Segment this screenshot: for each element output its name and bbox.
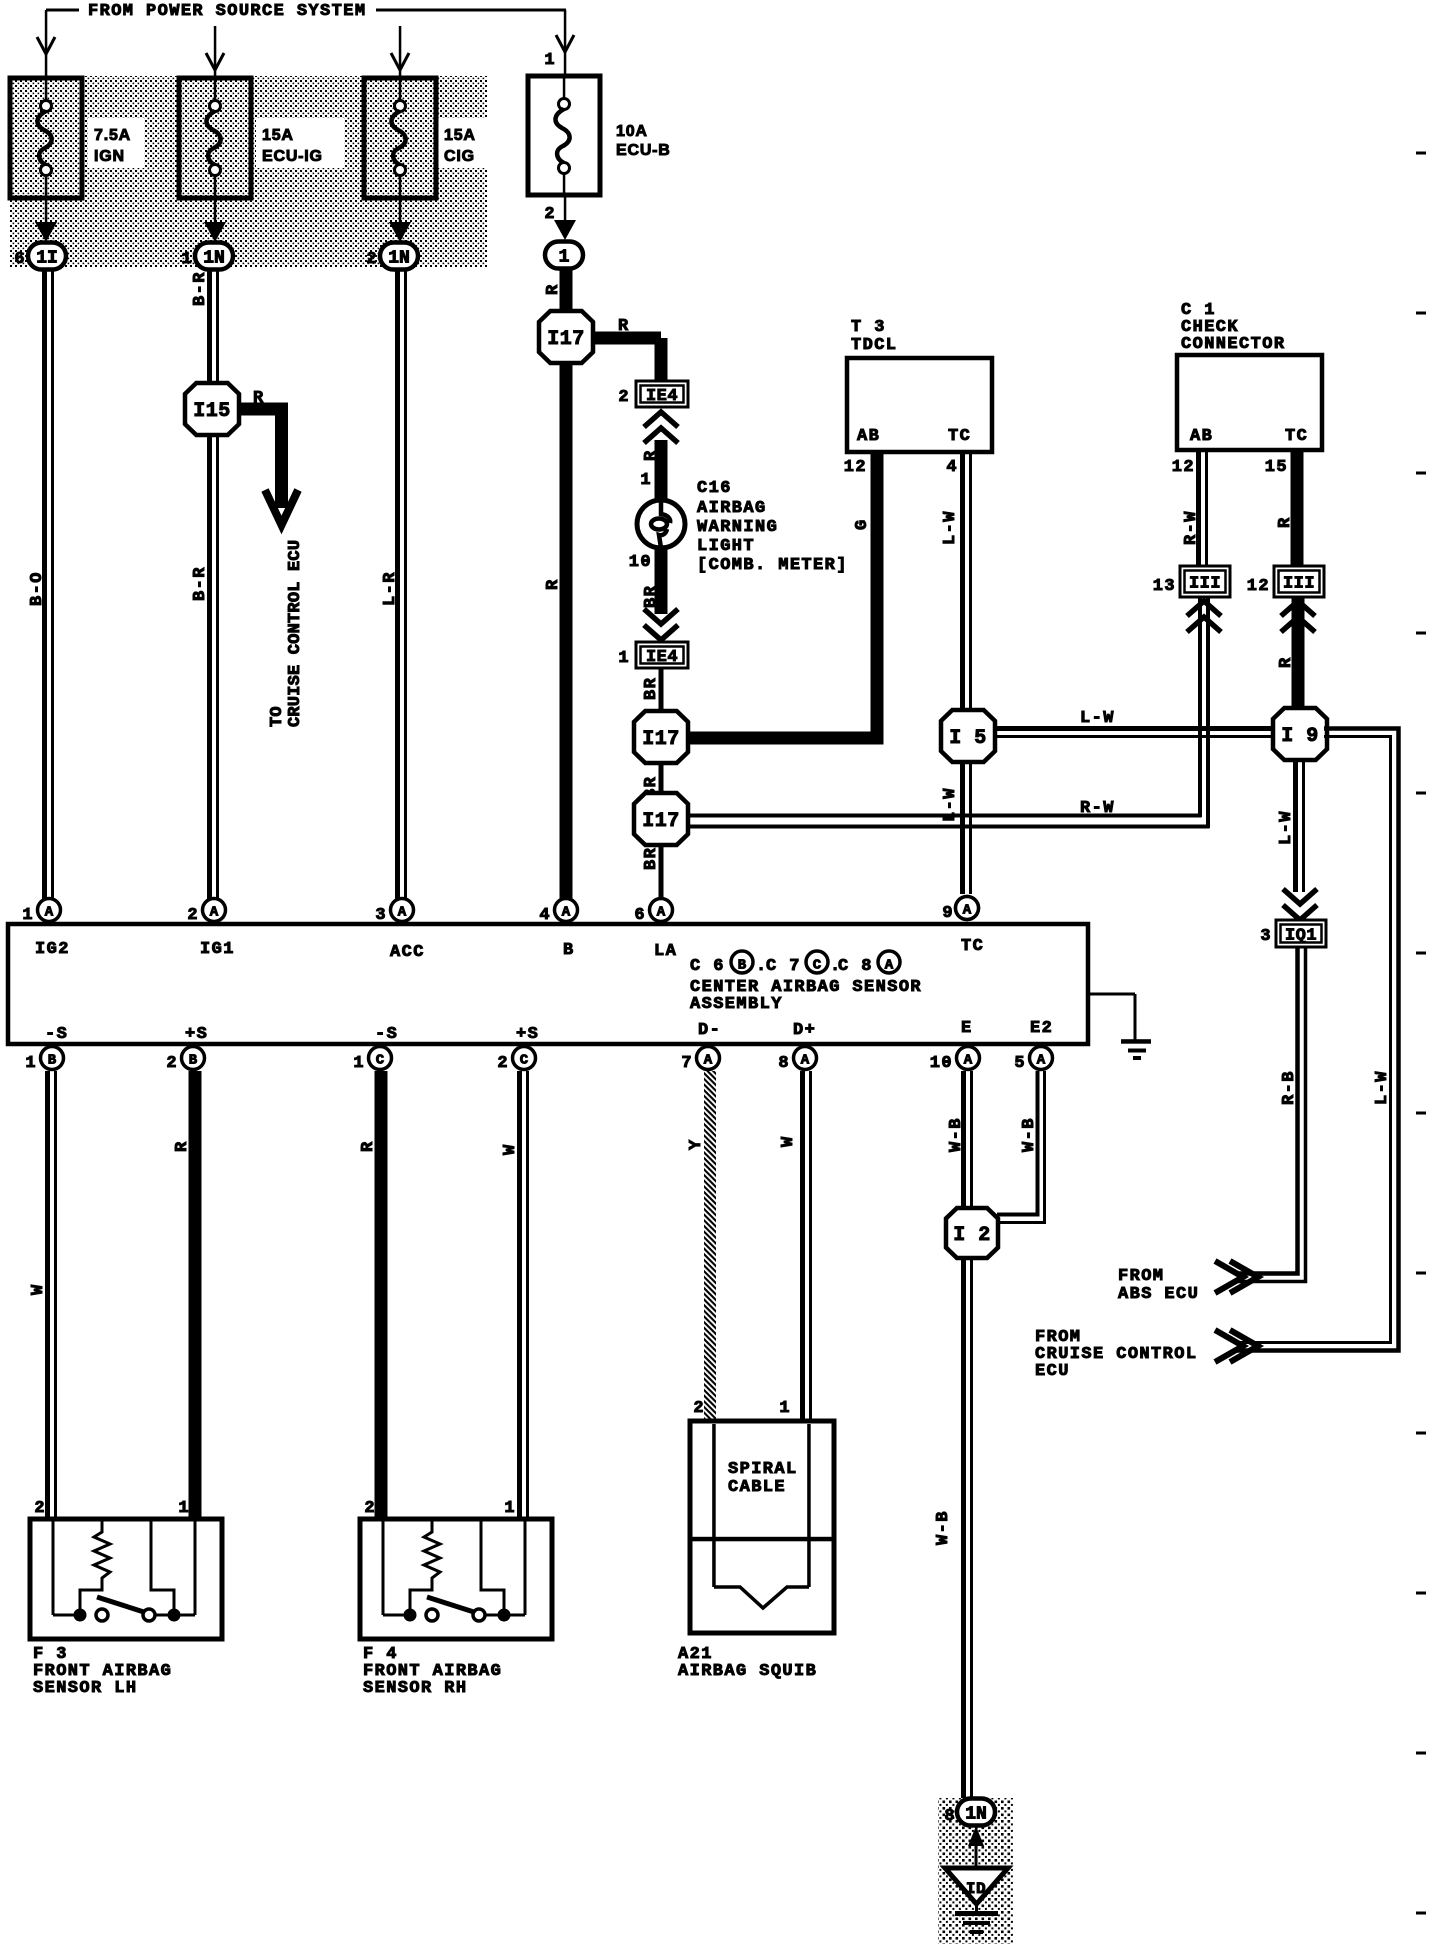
- svg-text:2: 2: [693, 1399, 705, 1418]
- svg-text:IE4: IE4: [646, 387, 678, 406]
- svg-text:10A: 10A: [616, 123, 648, 140]
- svg-text:15: 15: [1265, 458, 1288, 477]
- svg-text:ECU-B: ECU-B: [616, 142, 671, 159]
- svg-text:IG1: IG1: [200, 940, 235, 959]
- svg-text:L-W: L-W: [1373, 1070, 1392, 1105]
- svg-text:B: B: [48, 1053, 57, 1069]
- svg-text:C 6: C 6: [690, 957, 725, 976]
- svg-text:D-: D-: [698, 1021, 721, 1040]
- svg-text:CIG: CIG: [444, 148, 475, 165]
- svg-text:W: W: [29, 1283, 48, 1295]
- svg-text:8: 8: [944, 1807, 956, 1826]
- svg-text:B: B: [189, 1053, 198, 1069]
- svg-text:ASSEMBLY: ASSEMBLY: [690, 995, 783, 1014]
- svg-text:R: R: [359, 1140, 378, 1152]
- svg-text:1: 1: [181, 250, 193, 269]
- svg-text:1N: 1N: [965, 1805, 987, 1825]
- svg-text:R-W: R-W: [1182, 510, 1201, 545]
- svg-text:W-B: W-B: [934, 1510, 953, 1545]
- svg-text:10: 10: [629, 553, 652, 572]
- svg-text:7.5A: 7.5A: [94, 127, 131, 144]
- svg-text:I17: I17: [642, 810, 680, 833]
- svg-text:TC: TC: [1285, 427, 1308, 446]
- svg-text:2: 2: [364, 1499, 376, 1518]
- svg-text:R-W: R-W: [1080, 799, 1115, 818]
- svg-text:1: 1: [504, 1499, 516, 1518]
- svg-text:IGN: IGN: [94, 148, 125, 165]
- svg-text:R: R: [544, 283, 563, 295]
- svg-text:A: A: [801, 1053, 810, 1069]
- svg-text:A: A: [45, 905, 54, 921]
- svg-text:3: 3: [1260, 927, 1272, 946]
- svg-text:D+: D+: [793, 1021, 816, 1040]
- svg-text:2: 2: [497, 1054, 509, 1073]
- svg-text:CONNECTOR: CONNECTOR: [1181, 335, 1285, 354]
- svg-text:A: A: [562, 905, 571, 921]
- svg-text:Y: Y: [687, 1138, 706, 1150]
- svg-text:12: 12: [844, 458, 867, 477]
- svg-text:WARNING: WARNING: [697, 518, 778, 537]
- svg-text:B: B: [563, 941, 575, 960]
- svg-text:15A: 15A: [444, 127, 476, 144]
- svg-text:2: 2: [187, 906, 199, 925]
- svg-text:R: R: [1277, 656, 1296, 668]
- svg-text:BR: BR: [642, 677, 661, 700]
- svg-text:12: 12: [1172, 458, 1195, 477]
- svg-text:I17: I17: [547, 328, 585, 351]
- svg-text:AIRBAG: AIRBAG: [697, 499, 767, 518]
- svg-text:W-B: W-B: [1020, 1117, 1039, 1152]
- svg-text:I15: I15: [193, 400, 231, 423]
- svg-text:SPIRAL: SPIRAL: [728, 1460, 798, 1479]
- svg-text:2: 2: [366, 250, 378, 269]
- svg-text:15A: 15A: [262, 127, 294, 144]
- svg-text:1N: 1N: [388, 249, 410, 269]
- svg-text:B: B: [738, 958, 747, 974]
- svg-text:W: W: [501, 1143, 520, 1155]
- svg-text:III: III: [1283, 575, 1315, 594]
- svg-text:A: A: [704, 1053, 713, 1069]
- svg-text:W: W: [779, 1135, 798, 1147]
- svg-text:C16: C16: [697, 479, 732, 498]
- svg-text:+S: +S: [516, 1025, 539, 1044]
- svg-text:1I: 1I: [36, 249, 58, 269]
- svg-text:1: 1: [178, 1499, 190, 1518]
- svg-text:SENSOR LH: SENSOR LH: [33, 1679, 137, 1698]
- svg-text:B-O: B-O: [28, 571, 47, 606]
- svg-text:2: 2: [544, 205, 556, 224]
- svg-text:+S: +S: [185, 1025, 208, 1044]
- svg-text:TDCL: TDCL: [851, 336, 897, 355]
- svg-text:I 2: I 2: [953, 1224, 991, 1247]
- svg-text:AB: AB: [857, 427, 880, 446]
- svg-text:L-R: L-R: [381, 571, 400, 606]
- svg-text:1: 1: [559, 248, 570, 268]
- svg-text:4: 4: [946, 458, 958, 477]
- svg-text:-S: -S: [45, 1025, 68, 1044]
- svg-text:1: 1: [618, 649, 630, 668]
- svg-text:2: 2: [166, 1054, 178, 1073]
- svg-text:B-R: B-R: [191, 271, 210, 306]
- svg-text:ABS ECU: ABS ECU: [1118, 1285, 1199, 1304]
- svg-text:ACC: ACC: [390, 943, 425, 962]
- svg-text:C: C: [520, 1053, 529, 1069]
- svg-text:A: A: [398, 905, 407, 921]
- svg-text:I 9: I 9: [1281, 725, 1319, 748]
- svg-text:TC: TC: [961, 937, 984, 956]
- svg-text:CABLE: CABLE: [728, 1478, 786, 1497]
- svg-text:12: 12: [1247, 577, 1270, 596]
- svg-text:3: 3: [375, 906, 387, 925]
- svg-text:A: A: [963, 903, 972, 919]
- svg-text:5: 5: [1014, 1054, 1026, 1073]
- svg-text:A: A: [210, 905, 219, 921]
- svg-text:AIRBAG SQUIB: AIRBAG SQUIB: [678, 1662, 817, 1681]
- svg-text:R: R: [253, 389, 265, 408]
- svg-text:C 8: C 8: [838, 957, 873, 976]
- svg-text:1: 1: [779, 1399, 791, 1418]
- svg-text:10: 10: [930, 1054, 953, 1073]
- svg-text:-S: -S: [375, 1025, 398, 1044]
- svg-text:6: 6: [14, 250, 26, 269]
- svg-text:C: C: [376, 1053, 385, 1069]
- svg-text:BR: BR: [642, 585, 661, 608]
- svg-text:A: A: [1037, 1053, 1046, 1069]
- svg-text:R: R: [173, 1140, 192, 1152]
- svg-text:R: R: [642, 449, 661, 461]
- svg-text:[COMB. METER]: [COMB. METER]: [697, 556, 848, 575]
- svg-text:T 3: T 3: [851, 318, 886, 337]
- svg-text:LIGHT: LIGHT: [697, 537, 755, 556]
- svg-text:13: 13: [1153, 577, 1176, 596]
- svg-text:R: R: [544, 578, 563, 590]
- svg-text:1: 1: [544, 51, 556, 70]
- svg-text:G: G: [853, 518, 872, 530]
- svg-text:1: 1: [25, 1054, 37, 1073]
- svg-text:A: A: [657, 905, 666, 921]
- svg-text:7: 7: [681, 1054, 693, 1073]
- svg-text:LA: LA: [654, 942, 677, 961]
- svg-text:E2: E2: [1030, 1019, 1053, 1038]
- svg-text:6: 6: [634, 906, 646, 925]
- svg-text:L-W: L-W: [1277, 810, 1296, 845]
- svg-text:B-R: B-R: [191, 566, 210, 601]
- svg-text:A: A: [885, 958, 894, 974]
- svg-text:1: 1: [22, 906, 34, 925]
- svg-text:1N: 1N: [203, 249, 225, 269]
- svg-text:9: 9: [942, 904, 954, 923]
- svg-text:IG2: IG2: [35, 940, 70, 959]
- svg-text:TC: TC: [948, 427, 971, 446]
- svg-text:2: 2: [34, 1499, 46, 1518]
- svg-text:8: 8: [778, 1054, 790, 1073]
- svg-text:R: R: [1276, 516, 1295, 528]
- svg-text:A: A: [964, 1053, 973, 1069]
- svg-text:L-W: L-W: [1080, 709, 1115, 728]
- svg-text:III: III: [1189, 575, 1221, 594]
- svg-text:C 7: C 7: [766, 957, 801, 976]
- svg-text:AB: AB: [1190, 427, 1213, 446]
- svg-text:W-B: W-B: [947, 1117, 966, 1152]
- svg-text:R: R: [618, 317, 630, 336]
- svg-text:2: 2: [618, 388, 630, 407]
- svg-text:ECU-IG: ECU-IG: [262, 148, 323, 165]
- svg-text:FROM: FROM: [1118, 1267, 1164, 1286]
- svg-text:E: E: [961, 1019, 973, 1038]
- svg-text:C: C: [813, 958, 822, 974]
- svg-text:IQ1: IQ1: [1285, 927, 1317, 946]
- svg-text:1: 1: [353, 1054, 365, 1073]
- svg-text:R-B: R-B: [1280, 1070, 1299, 1105]
- svg-text:1: 1: [640, 471, 652, 490]
- svg-text:IE4: IE4: [646, 648, 678, 667]
- svg-text:BR: BR: [642, 847, 661, 870]
- svg-text:FROM POWER SOURCE SYSTEM: FROM POWER SOURCE SYSTEM: [88, 2, 366, 21]
- svg-text:4: 4: [539, 906, 551, 925]
- svg-text:L-W: L-W: [941, 510, 960, 545]
- svg-text:ECU: ECU: [1035, 1362, 1070, 1381]
- svg-text:I17: I17: [642, 728, 680, 751]
- svg-text:SENSOR RH: SENSOR RH: [363, 1679, 467, 1698]
- svg-text:ID: ID: [966, 1880, 986, 1898]
- svg-text:I 5: I 5: [949, 727, 987, 750]
